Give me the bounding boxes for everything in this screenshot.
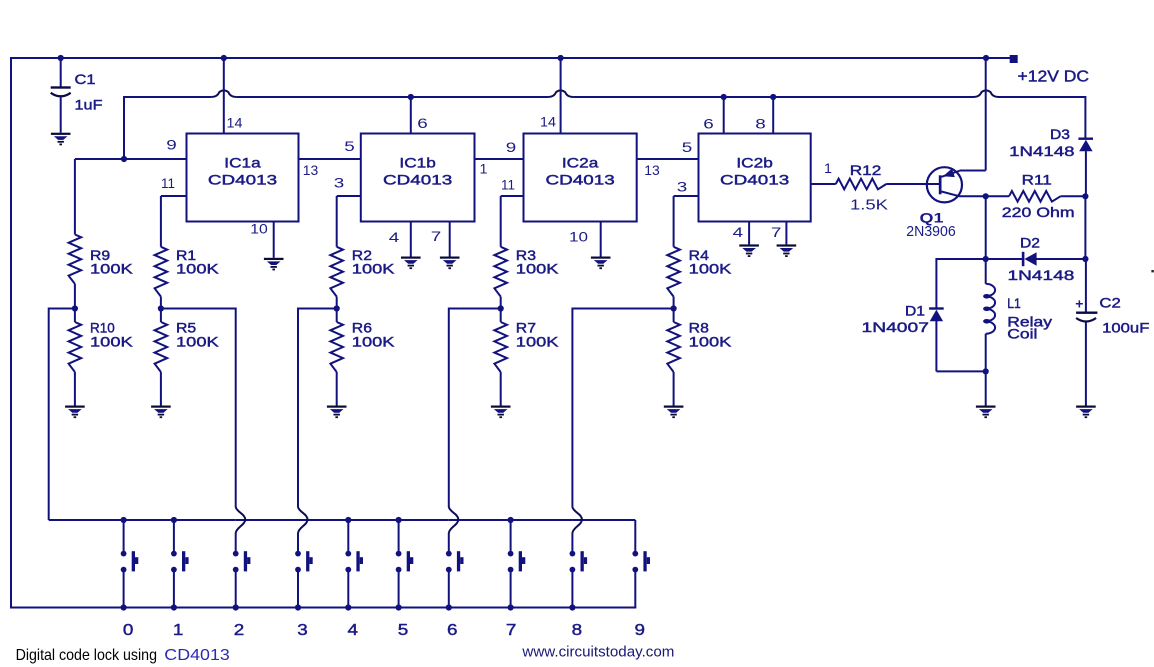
svg-text:2: 2 — [234, 622, 245, 639]
node junction button 7 / bottom rail — [508, 604, 514, 610]
node junction rail / button 0 — [121, 517, 127, 523]
switch push button 5 — [398, 520, 400, 551]
svg-text:1N4148: 1N4148 — [1008, 267, 1075, 283]
svg-text:100K: 100K — [516, 334, 560, 350]
switch push button 2 — [235, 533, 237, 551]
node junction rail / button 5 — [396, 517, 402, 523]
svg-text:6: 6 — [417, 115, 428, 131]
svg-text:7: 7 — [771, 224, 782, 240]
capacitor C2 — [1076, 312, 1097, 314]
ground L1 — [976, 406, 996, 419]
wire collector node down to D2 row — [985, 196, 987, 259]
svg-text:L1: L1 — [1007, 295, 1021, 311]
svg-text:CD4013: CD4013 — [208, 172, 277, 188]
resistor R10 — [74, 309, 76, 323]
node junction R3/R7 — [498, 305, 504, 311]
svg-text:www.circuitstoday.com: www.circuitstoday.com — [521, 644, 674, 661]
svg-text:100K: 100K — [689, 261, 733, 277]
svg-text:CD4013: CD4013 — [383, 172, 452, 188]
wire hop over IC2a pin14 — [548, 90, 573, 97]
wire IC1a pin14 from top rail — [223, 58, 225, 134]
svg-text:100K: 100K — [516, 261, 560, 277]
node junction rail / button 7 — [508, 517, 514, 523]
svg-text:100K: 100K — [176, 334, 220, 350]
wire Q1 emitter to top rail — [960, 170, 986, 172]
svg-text:5: 5 — [344, 138, 355, 154]
svg-text:IC2a: IC2a — [562, 155, 599, 171]
svg-text:C1: C1 — [75, 71, 96, 87]
wire D2 row left corner down to D1 — [935, 258, 937, 309]
svg-text:7: 7 — [506, 622, 517, 639]
flip-flop IC2b box — [699, 134, 811, 222]
svg-text:14: 14 — [540, 114, 556, 130]
wire Q1 collector node — [960, 195, 986, 197]
wire R2/R6 junction to button 3 — [298, 308, 337, 310]
wire D2 junction to C2 — [1085, 259, 1087, 313]
capacitor C1 — [60, 58, 62, 88]
svg-text:5: 5 — [682, 139, 693, 155]
node junction R2/R6 — [334, 305, 340, 311]
transistor Q1 — [927, 167, 962, 202]
wire IC1b pin4 to ground — [410, 222, 412, 257]
node junction IC2a pin14 / top rail — [558, 55, 564, 61]
wire hop over Q1 emitter vertical — [974, 90, 999, 97]
wire R3/R7 junction to button 6 — [449, 308, 501, 310]
svg-text:C2: C2 — [1099, 294, 1121, 310]
svg-text:IC2b: IC2b — [736, 155, 773, 171]
resistor R12 — [836, 179, 887, 190]
svg-text:1: 1 — [480, 161, 488, 177]
wire IC2b pin6 to second rail — [723, 97, 725, 134]
svg-text:Digital code lock using: Digital code lock using — [16, 647, 157, 664]
svg-text:CD4013: CD4013 — [164, 647, 230, 664]
svg-text:R11: R11 — [1022, 171, 1052, 187]
wire IC2b pin3 to R4 drop — [674, 195, 699, 197]
svg-text:3: 3 — [677, 178, 688, 194]
svg-text:100uF: 100uF — [1102, 320, 1149, 336]
node junction IC1b pin6 / second rail — [408, 94, 414, 100]
svg-text:8: 8 — [572, 622, 583, 639]
ground R5 — [151, 406, 171, 419]
terminal +12V DC — [1010, 55, 1018, 63]
wire IC2a pin10 to ground — [600, 222, 602, 257]
wire crossing at button 3 — [298, 507, 308, 533]
wire second (reset) rail — [124, 96, 211, 98]
wire left border vertical — [10, 57, 12, 609]
svg-text:3: 3 — [297, 622, 308, 639]
node junction second rail / pin9 wire — [121, 156, 127, 162]
svg-text:1: 1 — [173, 622, 184, 639]
ground IC1a pin10 — [264, 258, 284, 271]
wire C2 riser mid — [1084, 196, 1086, 259]
node junction emitter riser / top rail — [983, 55, 989, 61]
svg-text:1: 1 — [824, 160, 832, 176]
svg-text:13: 13 — [303, 162, 319, 178]
stray dot right edge — [1151, 270, 1153, 272]
ground IC2b pin7 — [777, 244, 797, 257]
svg-text:100K: 100K — [689, 334, 733, 350]
svg-text:4: 4 — [733, 224, 744, 240]
svg-text:10: 10 — [569, 229, 588, 245]
svg-text:D2: D2 — [1020, 235, 1040, 251]
wire IC1b pin7 to ground — [449, 222, 451, 257]
svg-text:+: + — [1075, 296, 1083, 312]
svg-text:2N3906: 2N3906 — [906, 223, 955, 240]
wire R1/R5 junction to button 2 — [161, 308, 236, 310]
node junction IC1a pin14 / top rail — [221, 55, 227, 61]
svg-text:4: 4 — [389, 229, 400, 245]
wire IC2a pin11 to R3 drop — [501, 195, 524, 197]
svg-text:10: 10 — [250, 221, 268, 237]
node junction IC2b pin6 / second rail — [721, 94, 727, 100]
node junction D1 / relay bottom — [983, 368, 989, 374]
node junction rail / button 4 — [345, 517, 351, 523]
svg-text:+12V DC: +12V DC — [1018, 68, 1090, 85]
svg-text:100K: 100K — [90, 261, 134, 277]
resistor R9 — [74, 159, 76, 235]
svg-text:220 Ohm: 220 Ohm — [1002, 204, 1075, 220]
wire second rail to D3 — [1084, 96, 1086, 139]
resistor R5 — [160, 309, 162, 323]
wire IC1b pin3 to R2 drop — [337, 195, 361, 197]
wire bottom rail — [10, 607, 636, 609]
resistor R7 — [500, 309, 502, 323]
ground IC2a pin10 — [591, 257, 611, 270]
resistor R11 — [986, 195, 1009, 197]
ground IC1b pin7 — [440, 257, 460, 270]
wire IC1b pin6 to second rail — [410, 97, 412, 134]
switch push button 0 — [123, 520, 125, 551]
node junction button 8 / bottom rail — [569, 604, 575, 610]
ground R6 — [327, 406, 347, 419]
diode D3 — [1078, 138, 1093, 140]
inductor L1 relay coil — [985, 259, 987, 284]
svg-text:100K: 100K — [176, 261, 220, 277]
wire IC2b pin8 to second rail — [772, 97, 774, 134]
svg-text:9: 9 — [635, 622, 646, 639]
resistor R3 — [500, 196, 502, 247]
svg-text:100K: 100K — [352, 261, 396, 277]
svg-text:Coil: Coil — [1007, 326, 1037, 342]
wire top +12V rail — [11, 57, 1010, 59]
resistor R4 — [673, 196, 675, 247]
svg-text:3: 3 — [334, 174, 345, 190]
ground IC1b pin4 — [401, 257, 421, 270]
node junction button 2 / bottom rail — [233, 604, 239, 610]
ground IC2b pin4 — [739, 244, 759, 257]
diode D2 — [1022, 252, 1025, 266]
wire button common rail — [49, 519, 236, 521]
svg-text:1uF: 1uF — [75, 97, 103, 113]
wire IC1a pin13 to IC1b pin5 — [299, 158, 361, 160]
wire crossing at button 8 — [572, 507, 582, 533]
wire hop over IC1a pin14 — [211, 90, 236, 97]
switch push button 9 — [634, 520, 636, 551]
switch push button 6 — [448, 533, 450, 551]
svg-text:13: 13 — [644, 162, 660, 178]
svg-text:D3: D3 — [1050, 126, 1070, 142]
node junction D2 row / relay top — [983, 256, 989, 262]
wire IC1a pin9 to R9 top — [75, 158, 187, 160]
svg-text:7: 7 — [431, 228, 442, 244]
svg-text:11: 11 — [161, 175, 175, 191]
node junction R9/R10 — [72, 305, 78, 311]
wire D1 bottom to relay bottom — [936, 370, 985, 372]
switch push button 3 — [297, 533, 299, 551]
svg-text:4: 4 — [348, 622, 359, 639]
svg-text:9: 9 — [166, 137, 177, 153]
wire IC1a pin11 to R1 drop — [161, 195, 187, 197]
node junction button 5 / bottom rail — [396, 604, 402, 610]
node junction button 4 / bottom rail — [345, 604, 351, 610]
wire R9/R10 junction to button rail — [49, 308, 75, 310]
svg-text:R12: R12 — [850, 162, 882, 178]
wire R12 to Q1 base — [886, 183, 939, 185]
node junction IC2b pin8 / second rail — [770, 94, 776, 100]
node junction button 0 / bottom rail — [121, 604, 127, 610]
svg-text:9: 9 — [506, 139, 517, 155]
svg-text:0: 0 — [123, 622, 134, 639]
diode D1 — [929, 307, 944, 309]
wire R4/R8 junction to button 8 — [572, 308, 673, 310]
resistor R8 — [673, 309, 675, 323]
flip-flop IC2a box — [524, 134, 637, 222]
svg-text:CD4013: CD4013 — [720, 172, 789, 188]
ground R8 — [664, 406, 684, 419]
node junction button 6 / bottom rail — [446, 604, 452, 610]
svg-text:6: 6 — [703, 116, 714, 132]
wire IC2a pin13 to IC2b pin5 — [637, 158, 699, 160]
node junction R11 / D3 / C2 riser — [1082, 193, 1088, 199]
switch push button 7 — [510, 520, 512, 551]
node junction R1/R5 — [158, 305, 164, 311]
svg-text:5: 5 — [398, 622, 409, 639]
wire IC2a pin14 from top rail — [560, 58, 562, 134]
resistor R2 — [336, 196, 338, 247]
svg-text:100K: 100K — [90, 334, 134, 350]
svg-text:11: 11 — [501, 176, 515, 192]
node junction D2 / C2 riser — [1082, 256, 1088, 262]
wire IC2b pin7 to ground — [785, 222, 787, 245]
resistor R6 — [336, 309, 338, 323]
wire IC2b pin1 to R12 — [811, 183, 836, 185]
wire crossing at button 6 — [449, 507, 459, 533]
svg-text:D1: D1 — [905, 303, 925, 319]
svg-text:1N4007: 1N4007 — [862, 319, 930, 335]
flip-flop IC1b box — [361, 134, 475, 222]
svg-text:100K: 100K — [352, 334, 396, 350]
node junction button 3 / bottom rail — [295, 604, 301, 610]
wire crossing at button 2 — [236, 507, 246, 533]
node junction rail / button 1 — [171, 517, 177, 523]
resistor R1 — [160, 196, 162, 247]
svg-text:6: 6 — [447, 622, 458, 639]
node junction collector / R11 / relay — [983, 193, 989, 199]
svg-text:8: 8 — [755, 116, 766, 132]
switch push button 1 — [173, 520, 175, 551]
svg-text:IC1b: IC1b — [399, 155, 436, 171]
svg-text:1.5K: 1.5K — [850, 196, 888, 213]
svg-text:CD4013: CD4013 — [546, 172, 615, 188]
switch push button 4 — [347, 520, 349, 551]
ground R7 — [491, 406, 511, 419]
ground C1 — [51, 133, 71, 146]
svg-text:1N4148: 1N4148 — [1009, 143, 1075, 159]
wire D2 left segment — [936, 258, 1022, 260]
switch push button 8 — [571, 533, 573, 551]
ground C2 — [1076, 406, 1096, 419]
wire second rail left drop to pin9 node — [123, 96, 125, 159]
wire IC1a pin10 to ground — [273, 222, 275, 258]
wire IC2b pin4 to ground — [748, 222, 750, 245]
node junction R4/R8 — [671, 305, 677, 311]
svg-text:IC1a: IC1a — [224, 155, 261, 171]
flip-flop IC1a box — [187, 134, 299, 222]
node junction button 1 / bottom rail — [171, 604, 177, 610]
ground R10 — [65, 406, 85, 419]
wire IC1b pin1 to IC2a pin9 — [475, 158, 524, 160]
node junction C1 / top rail — [58, 55, 64, 61]
svg-text:14: 14 — [227, 115, 243, 131]
